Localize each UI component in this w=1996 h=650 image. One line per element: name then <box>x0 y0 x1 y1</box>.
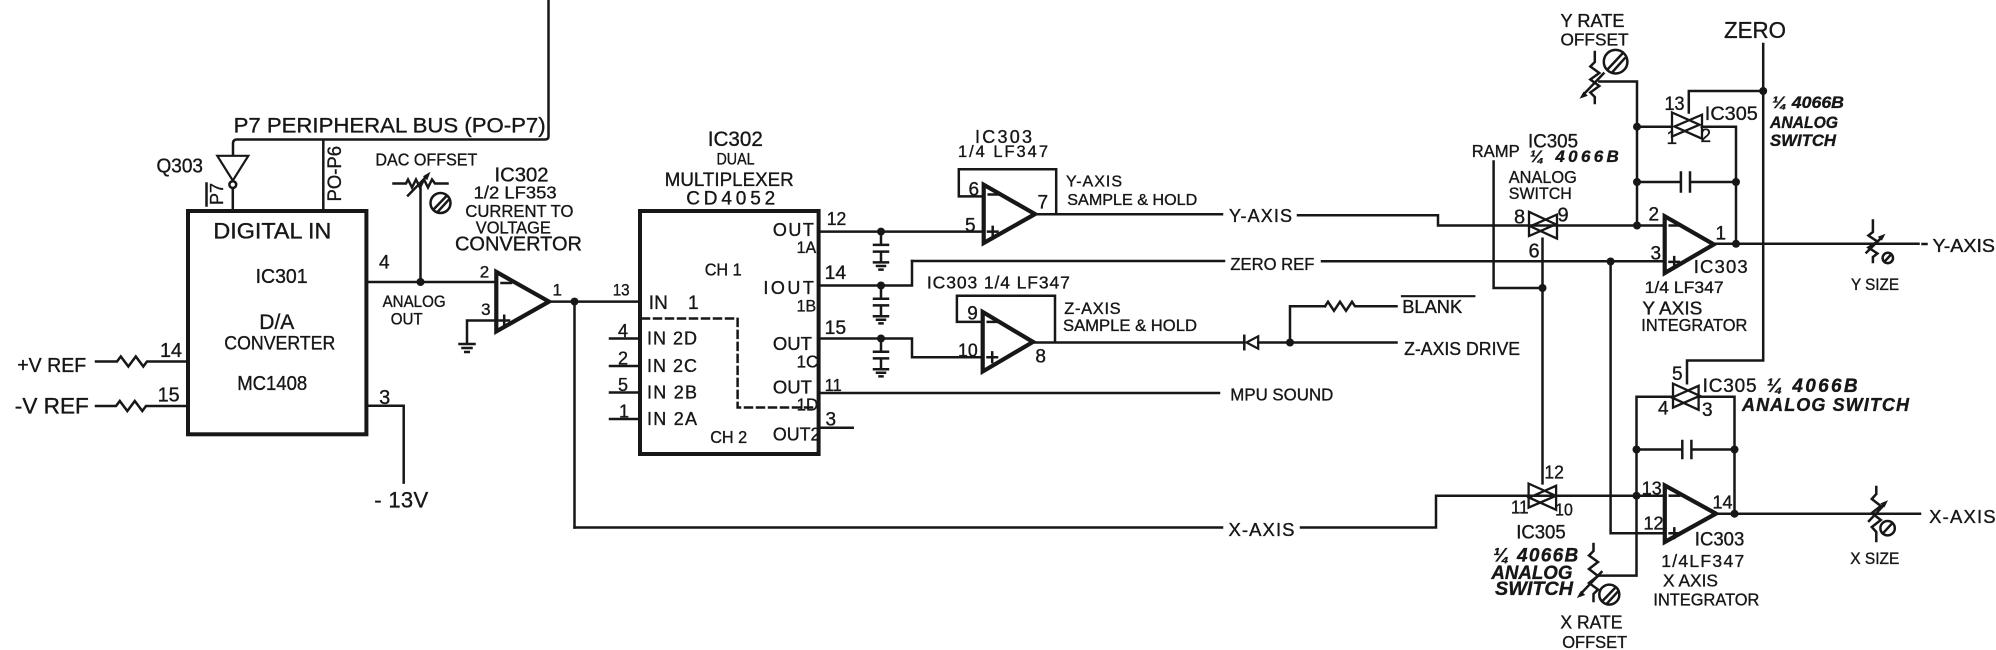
wire: IC301 pin 3 to -13V <box>366 406 403 483</box>
svg-text:Z-AXIS: Z-AXIS <box>1064 300 1121 318</box>
Y SIZE wiper arrow <box>1867 238 1882 253</box>
svg-text:1D: 1D <box>797 395 819 415</box>
analog switch IC305 pins 12/11/10 (X signal) <box>1529 484 1556 508</box>
op-amp IC303 Y axis integrator <box>1665 216 1714 273</box>
svg-text:10: 10 <box>958 340 978 361</box>
node: sample cap 1 junction <box>877 228 885 236</box>
Z S/H minus marker <box>988 321 997 324</box>
potentiometer X SIZE <box>1872 487 1881 541</box>
svg-text:4: 4 <box>618 321 628 341</box>
svg-text:6: 6 <box>1529 240 1540 262</box>
IC301 D/A converter box MC1408 <box>188 211 366 434</box>
capacitor C (zero ref) to ground <box>874 286 888 324</box>
mux pin 4 stub IN 2D <box>610 337 640 340</box>
svg-text:8: 8 <box>1514 206 1525 228</box>
mux channel divider dashed line <box>642 319 817 408</box>
svg-text:ANALOG: ANALOG <box>383 292 446 311</box>
svg-text:CH 2: CH 2 <box>710 428 747 447</box>
node: sample cap 2 junction <box>877 282 885 290</box>
Q303 inversion bubble <box>229 181 236 188</box>
svg-text:BLANK: BLANK <box>1402 296 1463 317</box>
wire: Q303 output to IC301 top (net P7) <box>232 188 235 211</box>
Y integrator minus marker <box>1670 224 1679 227</box>
X RATE OFFSET wiper arrow <box>1581 572 1602 594</box>
svg-text:4: 4 <box>1658 399 1669 420</box>
node: ramp control junction <box>1539 284 1547 292</box>
wire: mux pin 15 OUT 1C to IC303 pin 10 <box>819 339 983 358</box>
svg-text:6: 6 <box>969 180 980 201</box>
svg-text:IN 2C: IN 2C <box>647 356 697 376</box>
svg-text:1: 1 <box>619 402 629 422</box>
DAC OFFSET screwdriver circle <box>431 193 451 213</box>
svg-text:Y-AXIS: Y-AXIS <box>1229 206 1292 226</box>
wire: switch pin 4 lead and X input node vertical <box>1597 397 1673 576</box>
node: zero control junction <box>1759 87 1767 95</box>
wire: RAMP control line <box>1494 162 1543 289</box>
svg-text:IC305: IC305 <box>1705 104 1758 125</box>
svg-text:P7: P7 <box>206 183 227 205</box>
wire: switch pin 13 control to ZERO <box>1689 91 1763 113</box>
svg-text:2: 2 <box>480 262 489 281</box>
potentiometer Y RATE OFFSET <box>1590 52 1599 103</box>
wire: Y RATE OFFSET to Y integrator input node <box>1599 82 1637 226</box>
wire: mux pin 12 OUT 1A to IC303 pin 5 <box>819 230 984 233</box>
svg-text:RAMP: RAMP <box>1472 141 1520 161</box>
svg-text:Y-AXIS: Y-AXIS <box>1066 174 1122 191</box>
Z S/H plus marker <box>988 352 998 362</box>
svg-text:15: 15 <box>158 384 180 406</box>
node: switch pin 1 junction <box>1633 123 1641 131</box>
svg-text:IN 2D: IN 2D <box>647 329 697 349</box>
BLANK overline <box>1402 295 1474 297</box>
op-amp U=IC302 1/2 LF353 <box>496 272 549 332</box>
svg-text:ZERO: ZERO <box>1724 17 1786 43</box>
diode CR (Z-axis drive) <box>1243 336 1246 349</box>
wire: IC301 pin 4 analog out to IC302 op-amp <box>366 281 496 284</box>
svg-text:IN 2B: IN 2B <box>647 383 697 403</box>
op-amp IC303 Z-axis sample and hold <box>983 312 1033 372</box>
svg-text:14: 14 <box>825 263 847 284</box>
node: Y integrator output junction <box>1732 240 1740 248</box>
svg-text:2: 2 <box>1649 205 1660 226</box>
svg-text:INTEGRATOR: INTEGRATOR <box>1641 315 1747 335</box>
svg-text:13: 13 <box>1642 477 1662 498</box>
svg-text:DIGITAL IN: DIGITAL IN <box>213 219 331 244</box>
svg-text:12: 12 <box>1544 461 1564 482</box>
node: X cap right junction <box>1731 446 1739 454</box>
capacitor C (sample/hold 1) to ground <box>874 232 888 270</box>
wire: Y S/H feedback loop pin 6 to pin 7 <box>959 169 1056 214</box>
svg-text:IN 2A: IN 2A <box>647 409 697 429</box>
mux pin 2 stub IN 2C <box>610 365 640 368</box>
wire: switch pin 2 lead down to output <box>1702 127 1736 244</box>
analog switch IC305 pins 5/4/3 (X feedback) <box>1673 384 1700 408</box>
wire: peripheral bus vertical drop and bus line to Q303 input <box>233 0 549 155</box>
svg-text:Z-AXIS DRIVE: Z-AXIS DRIVE <box>1404 339 1520 359</box>
resistor R (blank) branch <box>1290 306 1325 342</box>
node: output to X-axis branch <box>571 298 579 306</box>
X SIZE wiper arrow <box>1869 505 1884 521</box>
svg-text:MPU SOUND: MPU SOUND <box>1230 384 1333 404</box>
wire: DAC offset pot to analog out line <box>419 188 422 283</box>
svg-text:-V REF: -V REF <box>15 394 89 419</box>
wire: Y-AXIS run right with step to analog switch <box>1298 215 1665 225</box>
svg-text:ANALOG SWITCH: ANALOG SWITCH <box>1741 395 1910 415</box>
svg-text:14: 14 <box>160 340 182 362</box>
svg-text:CD4052: CD4052 <box>686 189 775 210</box>
svg-text:13: 13 <box>613 280 630 299</box>
mux pin 3 stub OUT2 <box>819 426 853 429</box>
svg-text:SWITCH: SWITCH <box>1770 131 1837 150</box>
svg-text:9: 9 <box>1558 205 1569 227</box>
svg-text:11: 11 <box>1511 497 1529 518</box>
node: blank branch junction <box>1286 339 1294 347</box>
svg-text:9: 9 <box>967 304 978 325</box>
Y integrator plus marker <box>1670 257 1680 267</box>
svg-text:SWITCH: SWITCH <box>1495 579 1574 600</box>
wire: IC302 pin 3 to ground <box>467 321 496 344</box>
svg-text:13: 13 <box>1665 94 1685 115</box>
wire: ZERO REF run right segment to Y integrator pin 3 <box>1322 260 1665 263</box>
svg-text:1: 1 <box>1716 224 1727 245</box>
Y RATE OFFSET wiper arrow <box>1584 74 1604 95</box>
svg-text:Y SIZE: Y SIZE <box>1851 276 1899 294</box>
wire: Y S/H output Y-AXIS run left <box>1035 213 1222 216</box>
node: ZERO REF to X integrator branch <box>1607 258 1615 266</box>
Y RATE OFFSET screwdriver circle <box>1604 50 1628 74</box>
svg-text:OFFSET: OFFSET <box>1562 632 1627 650</box>
resistor on -V REF to pin 15 <box>96 401 188 411</box>
svg-text:1: 1 <box>688 293 699 314</box>
op-amp IC303 X axis integrator <box>1665 485 1716 542</box>
wire: X-AXIS run from mux output branch <box>575 526 1223 529</box>
svg-text:4: 4 <box>379 252 390 273</box>
svg-text:D/A: D/A <box>259 310 295 334</box>
svg-text:10: 10 <box>1555 500 1573 520</box>
mux pin 5 stub IN 2B <box>610 391 640 394</box>
capacitor C (sample/hold 2) to ground <box>874 339 888 377</box>
svg-text:8: 8 <box>1035 346 1046 367</box>
wire: IC302 output to mux IN 1 (pin 13) <box>549 300 640 303</box>
svg-text:3: 3 <box>1651 244 1662 265</box>
wire: diode to Z-AXIS DRIVE label <box>1258 341 1396 344</box>
node: cap junction right <box>1732 178 1740 186</box>
X integrator plus marker <box>1670 528 1679 538</box>
wire: switch control vertical (pin 6 to pin 12) <box>1541 239 1544 484</box>
svg-text:¼ 4066B: ¼ 4066B <box>1767 376 1858 397</box>
svg-text:1/4 LF347: 1/4 LF347 <box>1645 278 1724 297</box>
svg-text:ANALOG: ANALOG <box>1769 114 1838 132</box>
svg-text:14: 14 <box>1713 491 1733 512</box>
node: cap junction left <box>1633 178 1641 186</box>
svg-text:SAMPLE & HOLD: SAMPLE & HOLD <box>1063 317 1197 335</box>
node: X cap left junction <box>1633 446 1641 454</box>
svg-text:IC303 1/4 LF347: IC303 1/4 LF347 <box>927 273 1070 293</box>
svg-text:ZERO REF: ZERO REF <box>1230 254 1314 274</box>
svg-text:Y RATE: Y RATE <box>1561 10 1625 31</box>
svg-text:11: 11 <box>825 375 842 395</box>
svg-text:3: 3 <box>481 300 490 319</box>
svg-text:SAMPLE & HOLD: SAMPLE & HOLD <box>1067 192 1197 209</box>
Y SIZE screwdriver circle <box>1883 253 1893 263</box>
svg-text:PO-P6: PO-P6 <box>325 146 346 202</box>
node: X integrator output junction <box>1731 510 1739 518</box>
wire: Z S/H output to diode <box>1033 341 1243 344</box>
X integrator minus marker <box>1670 494 1679 497</box>
node P7 overline mark <box>205 184 208 206</box>
svg-text:3: 3 <box>826 410 837 431</box>
Y-AXIS terminal dash <box>1923 243 1927 246</box>
svg-text:CH 1: CH 1 <box>705 260 742 280</box>
svg-text:Q303: Q303 <box>157 155 204 177</box>
svg-text:7: 7 <box>1038 192 1049 213</box>
svg-text:IC302: IC302 <box>708 128 763 151</box>
wire: branch down to X-AXIS run <box>573 302 576 528</box>
node: X summing junction <box>1633 492 1641 500</box>
svg-text:CONVERTOR: CONVERTOR <box>455 233 582 255</box>
svg-text:IC305: IC305 <box>1703 376 1757 397</box>
svg-text:1C: 1C <box>797 351 819 371</box>
analog switch IC305 pins 8/9 (Y signal) <box>1529 212 1556 236</box>
analog switch IC305 pins 13/1/2 (zero) <box>1672 113 1700 137</box>
svg-text:IC301: IC301 <box>256 266 308 288</box>
potentiometer DAC OFFSET <box>394 180 448 188</box>
svg-text:OUT: OUT <box>773 220 814 240</box>
svg-text:X-AXIS: X-AXIS <box>1929 506 1996 527</box>
node: sample cap 3 junction <box>877 335 885 343</box>
svg-text:3: 3 <box>379 387 390 409</box>
capacitor C (Y integrator feedback) <box>1637 173 1736 192</box>
svg-text:15: 15 <box>825 318 847 339</box>
svg-text:1A: 1A <box>797 238 817 257</box>
IC302 minus marker <box>502 282 512 285</box>
svg-text:OFFSET: OFFSET <box>1561 29 1629 49</box>
svg-text:1: 1 <box>1667 128 1678 149</box>
svg-text:12: 12 <box>827 209 847 229</box>
svg-text:12: 12 <box>1644 513 1664 534</box>
op-amp IC303 Y-axis sample and hold <box>984 185 1035 243</box>
ground <box>460 344 475 352</box>
capacitor C (X integrator feedback) <box>1637 441 1735 458</box>
svg-text:1B: 1B <box>797 296 817 315</box>
DAC OFFSET wiper arrow <box>408 177 427 196</box>
Y S/H plus marker <box>988 227 998 236</box>
svg-text:IN: IN <box>649 293 668 314</box>
potentiometer X RATE OFFSET <box>1589 544 1598 601</box>
transistor Q303 (inverter symbol) <box>217 156 248 181</box>
svg-text:- 13V: - 13V <box>374 487 428 512</box>
Y S/H minus marker <box>989 193 998 196</box>
svg-text:1: 1 <box>553 280 562 299</box>
wire: Y integrator output to Y-AXIS <box>1714 243 1919 246</box>
svg-text:¼ 4066B: ¼ 4066B <box>1530 147 1619 166</box>
svg-text:+V REF: +V REF <box>17 354 86 377</box>
svg-text:IOUT: IOUT <box>763 278 814 298</box>
IC302 plus marker <box>500 316 510 326</box>
svg-text:1/4LF347: 1/4LF347 <box>1661 551 1744 571</box>
X SIZE screwdriver circle <box>1880 521 1894 535</box>
mux pin 1 stub IN 2A <box>610 418 640 421</box>
svg-text:X AXIS: X AXIS <box>1663 570 1718 590</box>
X RATE OFFSET screwdriver circle <box>1599 585 1619 605</box>
svg-text:DAC OFFSET: DAC OFFSET <box>375 149 477 169</box>
wire: mux pin 11 OUT 1D to MPU SOUND <box>819 392 1219 395</box>
svg-text:X RATE: X RATE <box>1560 613 1622 633</box>
svg-text:5: 5 <box>618 375 628 395</box>
wire: X integrator output to X-AXIS <box>1716 512 1920 515</box>
svg-text:OUT2: OUT2 <box>773 425 821 445</box>
wire: switch pin 3 lead and X output node vertical <box>1699 397 1735 514</box>
wire: Z S/H feedback loop pin 9 to pin 8 <box>957 296 1055 342</box>
wire: ZERO REF run left segment <box>912 260 1224 263</box>
svg-text:MC1408: MC1408 <box>237 373 307 395</box>
svg-text:SWITCH: SWITCH <box>1509 184 1572 203</box>
svg-text:OUT: OUT <box>391 310 423 329</box>
svg-text:X-AXIS: X-AXIS <box>1229 519 1295 540</box>
svg-text:Y-AXIS: Y-AXIS <box>1933 235 1996 256</box>
potentiometer Y SIZE <box>1868 221 1877 263</box>
svg-text:DUAL: DUAL <box>717 151 755 169</box>
svg-text:CONVERTER: CONVERTER <box>224 332 335 354</box>
resistor on +V REF to pin 14 <box>96 357 188 367</box>
svg-text:P7 PERIPHERAL BUS (PO-P7): P7 PERIPHERAL BUS (PO-P7) <box>234 115 546 138</box>
svg-text:3: 3 <box>1702 400 1713 421</box>
svg-text:IC305: IC305 <box>1516 523 1566 544</box>
IC302 dual multiplexer CD4052 box <box>640 211 819 454</box>
svg-text:5: 5 <box>965 216 976 237</box>
svg-text:IC303: IC303 <box>1695 530 1745 551</box>
wire: bus to IC301 top (net P0-P6) <box>322 141 325 212</box>
svg-text:2: 2 <box>1701 126 1712 147</box>
svg-text:5: 5 <box>1672 364 1683 385</box>
node: Y integrator pin 2 junction <box>1633 222 1641 230</box>
wire: ZERO REF down to X integrator pin 12 <box>1611 262 1665 534</box>
svg-text:¼ 4066B: ¼ 4066B <box>1772 93 1844 112</box>
svg-text:INTEGRATOR: INTEGRATOR <box>1653 590 1759 610</box>
svg-text:2: 2 <box>618 349 628 369</box>
svg-text:IC303: IC303 <box>1694 256 1748 277</box>
node: DAC offset junction <box>417 278 425 286</box>
wire: ZERO vertical down to switch pin 5 <box>1687 44 1763 383</box>
wire: X-AXIS run right with step to analog switch <box>1301 496 1665 528</box>
svg-text:X SIZE: X SIZE <box>1850 550 1899 568</box>
wire: mux pin 14 IOUT 1B up to ZERO REF <box>819 261 912 286</box>
svg-text:1/2 LF353: 1/2 LF353 <box>474 182 557 202</box>
wire: switch pin 1 lead <box>1637 125 1672 128</box>
